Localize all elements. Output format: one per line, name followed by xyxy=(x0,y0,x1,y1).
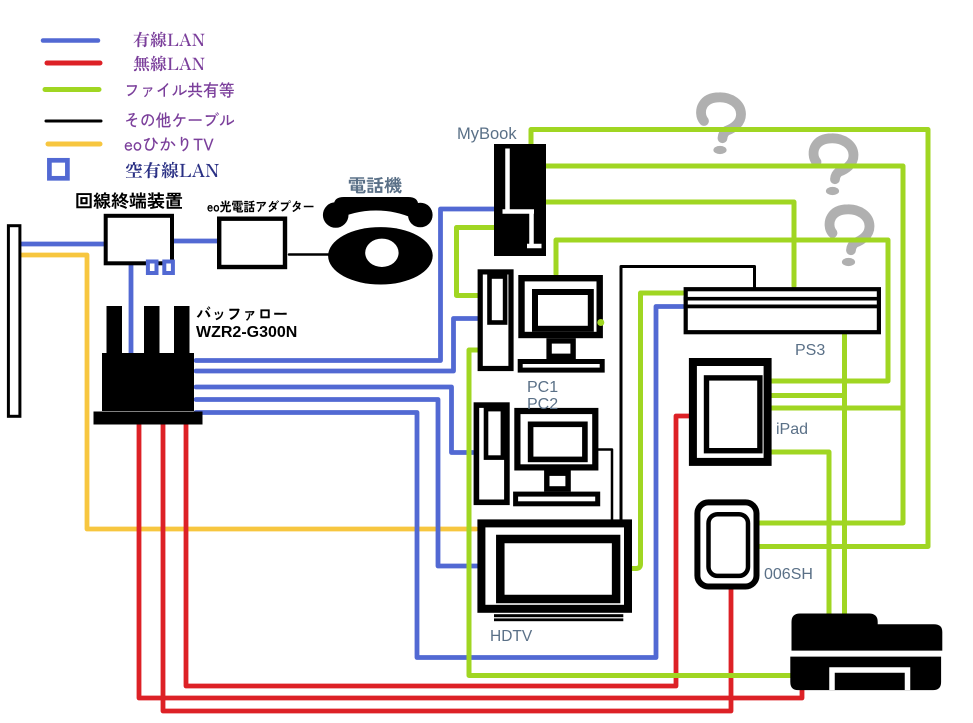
legend: wireless LAN sample line xyxy=(47,61,100,66)
wire: wired LAN (router to MyBook) xyxy=(196,209,494,361)
legend: other cable sample line xyxy=(46,120,101,123)
PC1 tower xyxy=(480,272,511,369)
svg-text:PC1: PC1 xyxy=(527,379,558,396)
label: eo hikari denwa adapter xyxy=(207,200,313,212)
question mark 3 xyxy=(830,209,870,266)
PC2 tower xyxy=(476,405,507,502)
svg-text:WZR2-G300N: WZR2-G300N xyxy=(196,324,297,341)
wire: file sharing (MyBook to PS3) xyxy=(545,202,794,286)
label: yuusen LAN (wired LAN legend) xyxy=(134,32,205,48)
wire: file sharing (PS3 bottom to printer) xyxy=(842,334,847,617)
legend: empty wired LAN port sample square xyxy=(49,160,67,178)
legend: wired LAN sample line xyxy=(43,38,98,43)
printer xyxy=(792,614,943,651)
label: musen LAN (wireless LAN legend) xyxy=(134,56,205,72)
006SH smartphone xyxy=(697,502,756,586)
eo phone adapter box xyxy=(219,219,285,267)
PC2 monitor xyxy=(517,411,595,467)
wire: wired LAN (router to PC1) xyxy=(196,319,477,372)
ONU (line terminal) box xyxy=(106,216,172,263)
router (Buffalo WZR2-G300N) xyxy=(94,306,203,425)
wire: file sharing (MyBook to 006SH middle route) xyxy=(545,166,903,523)
svg-text:MyBook: MyBook xyxy=(457,125,517,143)
wire: file sharing branch (iPad to middle route) xyxy=(770,406,903,411)
telephone xyxy=(323,197,433,285)
wall outlet bar xyxy=(8,226,20,417)
legend: eo hikari TV sample line xyxy=(48,142,100,147)
label: sonota cable (other cable legend) xyxy=(126,112,234,128)
question mark 2 xyxy=(814,138,854,195)
wire: wireless LAN (router to printer) xyxy=(139,424,802,698)
wire: wired LAN (wall outlet to ONU) xyxy=(21,242,105,247)
wire: wired LAN (ONU to eo phone adapter) xyxy=(173,239,217,244)
svg-text:HDTV: HDTV xyxy=(490,628,533,645)
wire: file sharing (MyBook to PC1 tower) xyxy=(457,228,495,296)
wire: file sharing (PS3 to HDTV) xyxy=(632,293,684,569)
label: denwaki (telephone) xyxy=(349,177,402,194)
PC1 monitor xyxy=(522,278,600,335)
wire: HDMI cable (PS3 to HDTV) xyxy=(621,267,755,521)
svg-text:006SH: 006SH xyxy=(764,566,813,583)
wire: monitor cable (PC2 to HDTV) xyxy=(598,450,612,521)
HDTV xyxy=(481,523,628,608)
node: green stub on PC1 monitor right edge xyxy=(597,319,604,326)
wire: phone cable (adapter to telephone) xyxy=(289,253,331,256)
MyBook external HDD xyxy=(494,144,546,256)
label: aki yuusen LAN (empty wired LAN legend) xyxy=(126,162,219,179)
label: file kyouyuu tou (file sharing legend) xyxy=(127,82,234,98)
PS3 xyxy=(686,289,879,332)
legend: file sharing sample line xyxy=(45,87,99,92)
wire: file sharing (iPad to printer) xyxy=(770,452,829,618)
wire: file sharing (MyBook top to 006SH) xyxy=(531,130,928,547)
wire: file sharing (PC1 monitor to iPad) xyxy=(556,240,888,381)
wire: wired LAN (router to PS3) xyxy=(196,307,683,658)
empty LAN port 1 xyxy=(148,262,157,274)
iPad xyxy=(693,362,768,462)
wire: wireless LAN (router to 006SH) xyxy=(163,424,731,711)
empty LAN port 2 xyxy=(164,262,173,274)
label: eo hikari TV legend xyxy=(125,137,214,152)
svg-text:PC2: PC2 xyxy=(527,396,558,413)
wire: wired LAN (router to PC2) xyxy=(196,387,473,453)
label: kaisen shuutan souchi (ONU) xyxy=(76,192,182,209)
wire: file sharing (PC1 tower to printer) xyxy=(469,350,791,676)
question mark 1 xyxy=(701,97,741,154)
wire: file sharing (iPad to PS3-printer line) xyxy=(770,393,845,398)
wire: wired LAN (ONU down to router) xyxy=(129,264,134,358)
svg-text:iPad: iPad xyxy=(776,421,808,438)
wire: wired LAN (router to HDTV) xyxy=(196,400,477,567)
svg-text:PS3: PS3 xyxy=(795,342,825,359)
wire: eo hikari TV (wall outlet to HDTV) xyxy=(21,255,476,529)
wire: wireless LAN (router to iPad) xyxy=(186,416,689,686)
label: Buffalo xyxy=(197,306,287,321)
